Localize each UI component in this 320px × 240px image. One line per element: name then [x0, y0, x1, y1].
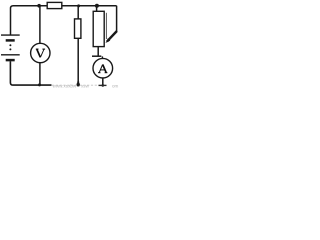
svg-text:xsw: xsw [81, 84, 90, 89]
svg-text:om: om [112, 84, 119, 89]
svg-text:www.xsxbw: www.xsxbw [53, 84, 77, 89]
